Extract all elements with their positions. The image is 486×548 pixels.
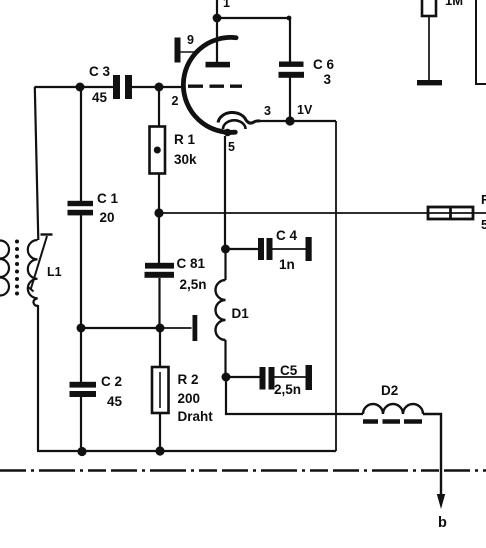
node mid-right dot xyxy=(156,324,165,333)
svg-text:C5: C5 xyxy=(280,363,298,378)
resistor R2 xyxy=(152,367,169,413)
svg-text:3: 3 xyxy=(264,104,271,118)
svg-text:F: F xyxy=(481,192,486,207)
tube V1 envelope arc xyxy=(183,37,236,132)
svg-text:C 3: C 3 xyxy=(89,64,111,79)
wire C2 lower xyxy=(80,397,82,451)
tube pin 9 bar xyxy=(175,38,181,63)
node R1 bottom junction dot xyxy=(154,208,163,217)
node rail C2 dot xyxy=(77,447,86,456)
capacitor C4 xyxy=(258,238,273,260)
tube anode plate xyxy=(206,62,231,68)
inductor D1 xyxy=(216,280,226,340)
tube anode lead xyxy=(216,18,218,62)
tube cathode blob pin 5 xyxy=(224,129,232,137)
ground bar xyxy=(417,80,442,85)
wire C5 right lead xyxy=(275,376,307,378)
wire mid horizontal y328 xyxy=(81,327,160,329)
svg-text:30k: 30k xyxy=(174,152,197,167)
resistor R3 horizontal boxes xyxy=(428,207,473,219)
svg-text:R 1: R 1 xyxy=(174,132,196,147)
svg-text:9: 9 xyxy=(187,33,194,47)
node rail R2 dot xyxy=(155,446,164,455)
inductor L1 right winding xyxy=(28,240,38,306)
node C4 junction dot xyxy=(221,245,230,254)
svg-text:45: 45 xyxy=(92,90,108,105)
resistor 1M (top cut) xyxy=(422,0,436,16)
svg-text:b: b xyxy=(438,515,447,531)
node mid-left dot xyxy=(77,324,86,333)
resistor R1 xyxy=(150,127,166,174)
node pin1 junction dot xyxy=(213,14,222,23)
wire cathode to corner xyxy=(258,120,336,122)
wire C6 upper lead xyxy=(289,18,291,62)
tube pin 9 lead xyxy=(181,51,198,53)
capacitor C81 xyxy=(145,263,175,278)
svg-text:1V: 1V xyxy=(297,103,313,117)
inductor D2 core dashes xyxy=(363,419,422,424)
svg-text:C 1: C 1 xyxy=(97,191,119,206)
svg-text:R 2: R 2 xyxy=(178,372,199,387)
node C5 junction dot xyxy=(222,373,231,382)
wire C5 left lead xyxy=(226,376,260,378)
wire C4 right lead xyxy=(273,248,307,250)
inductor L1 left winding (cut at edge) xyxy=(0,241,9,296)
tube grid wire from node xyxy=(159,86,185,88)
terminal bar xyxy=(193,315,198,341)
svg-text:3: 3 xyxy=(324,72,332,87)
L1 adjustment arrow xyxy=(31,236,48,290)
wire C2 upper gap filler xyxy=(80,328,82,382)
svg-text:1n: 1n xyxy=(279,257,295,272)
capacitor C5 xyxy=(260,367,275,390)
capacitor C6 xyxy=(279,62,305,78)
svg-text:1M: 1M xyxy=(445,0,463,8)
svg-text:200: 200 xyxy=(178,391,201,406)
svg-text:5: 5 xyxy=(228,140,235,154)
wire stub to terminal bar xyxy=(160,327,192,329)
capacitor C1 xyxy=(68,201,94,216)
node corner dot at C6 top xyxy=(287,16,292,21)
wire D1 top lead xyxy=(224,249,226,280)
resistor R2 lead bottom xyxy=(159,413,161,451)
svg-text:1: 1 xyxy=(223,0,230,10)
wire left vertical top to L1 xyxy=(35,87,39,240)
svg-text:20: 20 xyxy=(100,210,115,225)
wire C3 right xyxy=(132,86,159,88)
tube cathode dome xyxy=(218,112,260,123)
arrow b head xyxy=(437,494,445,509)
tube grid dashes xyxy=(188,84,242,87)
svg-text:2: 2 xyxy=(172,94,179,108)
node C3 right dot xyxy=(155,83,164,92)
resistor R1 lead bottom xyxy=(158,174,160,214)
svg-text:D1: D1 xyxy=(232,306,250,321)
svg-text:45: 45 xyxy=(107,394,123,409)
wire pin1 to C6 top xyxy=(217,17,290,19)
resistor R3 divider xyxy=(449,207,452,219)
wire L1 bottom to rail xyxy=(37,305,39,451)
node C3 left dot xyxy=(76,83,85,92)
wire D1 bottom lead xyxy=(224,340,226,377)
wire top-left horizontal xyxy=(35,86,114,88)
wire cathode branch vertical x225 xyxy=(224,136,226,249)
wire D2 to b arrow xyxy=(423,414,441,497)
svg-text:5: 5 xyxy=(481,217,486,232)
svg-text:L1: L1 xyxy=(47,265,62,279)
chassis dash-dot line xyxy=(0,469,486,471)
svg-text:2,5n: 2,5n xyxy=(180,277,207,292)
wire right edge vertical xyxy=(476,0,486,84)
C4 terminal bar xyxy=(306,237,312,261)
capacitor C2 xyxy=(70,382,97,397)
wire pin1 top vertical xyxy=(216,0,218,18)
node 1V junction dot xyxy=(285,116,294,125)
svg-text:2,5n: 2,5n xyxy=(274,382,301,397)
svg-text:C 81: C 81 xyxy=(177,256,206,271)
wire right side vertical x337 xyxy=(335,121,337,451)
svg-text:C 2: C 2 xyxy=(101,374,122,389)
C5 terminal bar xyxy=(306,365,313,390)
wire cathode branch to D2 xyxy=(226,377,363,414)
tube heater inner arc xyxy=(223,120,246,129)
resistor R2 inner line xyxy=(159,372,161,408)
inductor D2 xyxy=(363,404,423,414)
resistor R1 lead top xyxy=(158,87,160,127)
wire C81 branch xyxy=(158,213,161,328)
L1 core dotted line xyxy=(15,240,19,296)
wire long horizontal y213 xyxy=(159,212,486,214)
capacitor C3 xyxy=(113,75,132,99)
svg-text:C 6: C 6 xyxy=(313,57,335,72)
wire C4 left lead xyxy=(226,248,259,250)
svg-text:Draht: Draht xyxy=(178,409,214,424)
wire bottom rail xyxy=(37,450,336,452)
wire C6 lower lead xyxy=(289,77,291,121)
resistor R1 tap dot xyxy=(154,147,161,154)
svg-text:C 4: C 4 xyxy=(276,228,298,243)
resistor R2 lead top xyxy=(159,328,161,367)
wire C1 branch vertical xyxy=(80,87,82,328)
svg-text:D2: D2 xyxy=(381,383,398,398)
wire 1M to ground xyxy=(428,16,430,80)
